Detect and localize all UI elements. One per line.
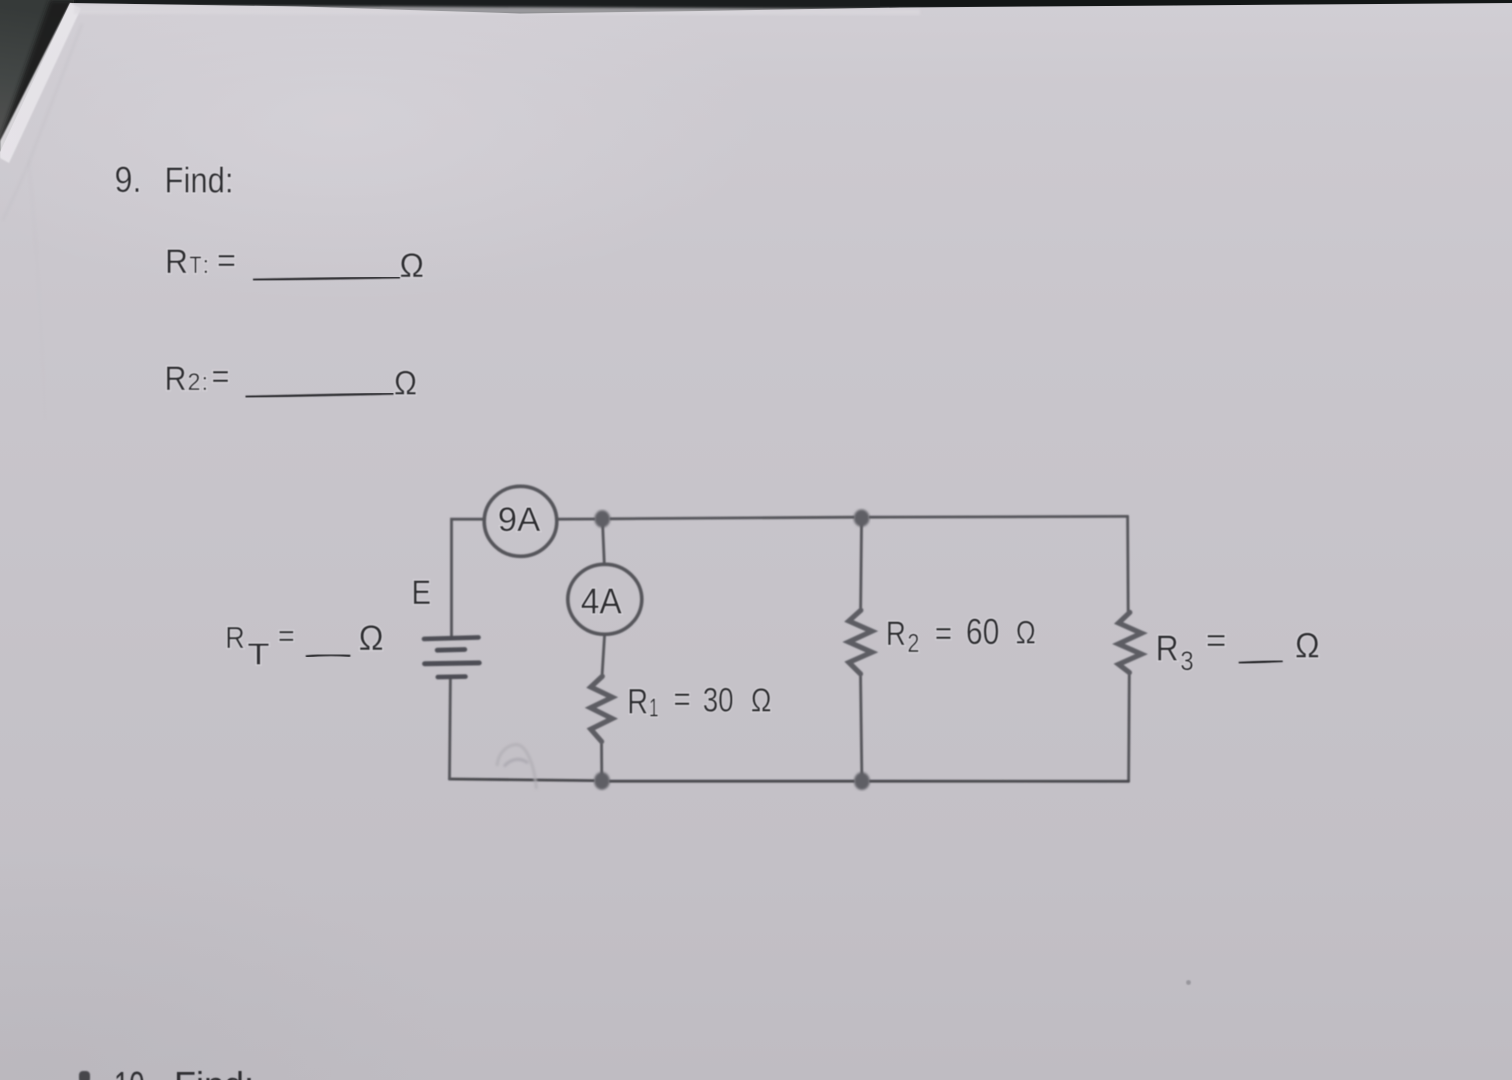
svg-text:4A: 4A [581, 580, 622, 621]
svg-text:T: T [190, 252, 202, 279]
paper speck [1186, 980, 1191, 985]
bottom cut-off text: 10. Find: [114, 1064, 254, 1080]
svg-text:Find:: Find: [165, 160, 234, 201]
svg-text:=: = [217, 242, 236, 280]
svg-text:R: R [225, 620, 245, 655]
desk shadow along paper edge [0, 0, 74, 158]
svg-text:=: = [674, 680, 691, 719]
wire: battery stem to bottom-left corner [448, 678, 452, 779]
RT label blank underline [306, 655, 351, 657]
resistor R3 value label [1156, 622, 1320, 676]
svg-text:=: = [278, 618, 295, 653]
svg-text:Ω: Ω [394, 365, 417, 403]
resistor R2 value label [886, 611, 1036, 658]
svg-text:Ω: Ω [1295, 627, 1320, 666]
paper corner crease line [3, 24, 82, 220]
battery E plate 1 long [424, 637, 479, 639]
svg-text::: : [202, 369, 209, 396]
wire: R2 to bottom node D [861, 674, 862, 781]
wire: R1 to bottom node C [600, 742, 603, 781]
wire: bottom left segment [449, 779, 593, 781]
header text: 9. Find: [115, 159, 234, 201]
wire: node B to top-right corner [870, 515, 1128, 519]
svg-text:2: 2 [907, 628, 919, 658]
svg-text:Ω: Ω [1016, 614, 1036, 650]
resistor R1 zigzag [591, 676, 613, 741]
svg-text:R: R [1156, 628, 1179, 669]
svg-text:2: 2 [188, 369, 201, 396]
svg-text:=: = [935, 615, 952, 653]
svg-text::: : [203, 252, 210, 279]
wire: node A to node B [611, 517, 854, 519]
svg-text:Ω: Ω [359, 619, 384, 658]
RT blank underline [253, 277, 400, 280]
battery E plate 4 short [438, 674, 466, 679]
resistor R3 zigzag [1118, 612, 1141, 672]
wire: right vertical upper [1126, 516, 1129, 612]
wire: 4A to resistor R1 [602, 635, 605, 677]
desk top-left gradient [0, 0, 74, 158]
resistor R1 value label [627, 680, 771, 723]
wire: left vertical + top stub to 9A [452, 519, 485, 636]
resistor R2 zigzag [849, 610, 872, 674]
desk dark sliver top right [880, 0, 1512, 6]
junction node D [854, 772, 870, 790]
svg-text:E: E [412, 574, 432, 612]
ammeter 4A label [581, 580, 622, 621]
svg-text:3: 3 [1180, 646, 1194, 676]
battery E plate 2 short [437, 647, 465, 653]
svg-text:R: R [165, 243, 188, 281]
R2: = ___ line [165, 358, 418, 403]
wire: bottom middle segment [610, 780, 854, 783]
junction node A [595, 510, 611, 527]
RT: = ___ line [165, 242, 424, 285]
svg-text:Find:: Find: [174, 1064, 254, 1080]
svg-text:60: 60 [966, 611, 1000, 652]
svg-text:Ω: Ω [751, 682, 772, 719]
wire: right vertical lower [1127, 673, 1131, 782]
battery label E [412, 574, 432, 612]
circuit wires and components [424, 486, 1142, 781]
wire: node B down to resistor R2 [861, 518, 862, 610]
R2 blank underline [246, 394, 394, 397]
paper top edge highlight [74, 5, 920, 15]
svg-text:T: T [248, 637, 270, 672]
svg-text:R: R [886, 615, 906, 653]
junction node B [854, 509, 870, 526]
ammeter 4A circle [568, 564, 642, 634]
paper bottom-left shade [0, 840, 460, 1080]
bottom-left partial mark [79, 1071, 90, 1080]
ammeter 9A circle [484, 486, 557, 556]
svg-text:10.: 10. [114, 1064, 152, 1080]
svg-text:=: = [212, 358, 230, 396]
paper left edge highlight [0, 3, 81, 163]
ammeter 9A label [498, 501, 541, 539]
wire: bottom right segment [870, 780, 1129, 783]
svg-text:R: R [165, 360, 187, 398]
svg-text:=: = [1206, 622, 1227, 660]
svg-text:9.: 9. [115, 159, 142, 200]
faint pencil scribble [497, 745, 537, 790]
svg-text:R: R [627, 682, 648, 721]
svg-text:1: 1 [649, 693, 659, 723]
wire: node A down to ammeter 4A [602, 519, 604, 564]
circuit label RT = __ ohm [225, 618, 383, 672]
wire: 9A to node A [557, 518, 594, 521]
R3 blank underline [1239, 661, 1283, 663]
paper top-left glow [0, 0, 760, 300]
svg-text:Ω: Ω [400, 247, 425, 285]
svg-text:30: 30 [703, 682, 734, 720]
junction node C [594, 772, 610, 790]
svg-text:9A: 9A [498, 501, 541, 539]
battery E plate 3 long [425, 660, 480, 666]
